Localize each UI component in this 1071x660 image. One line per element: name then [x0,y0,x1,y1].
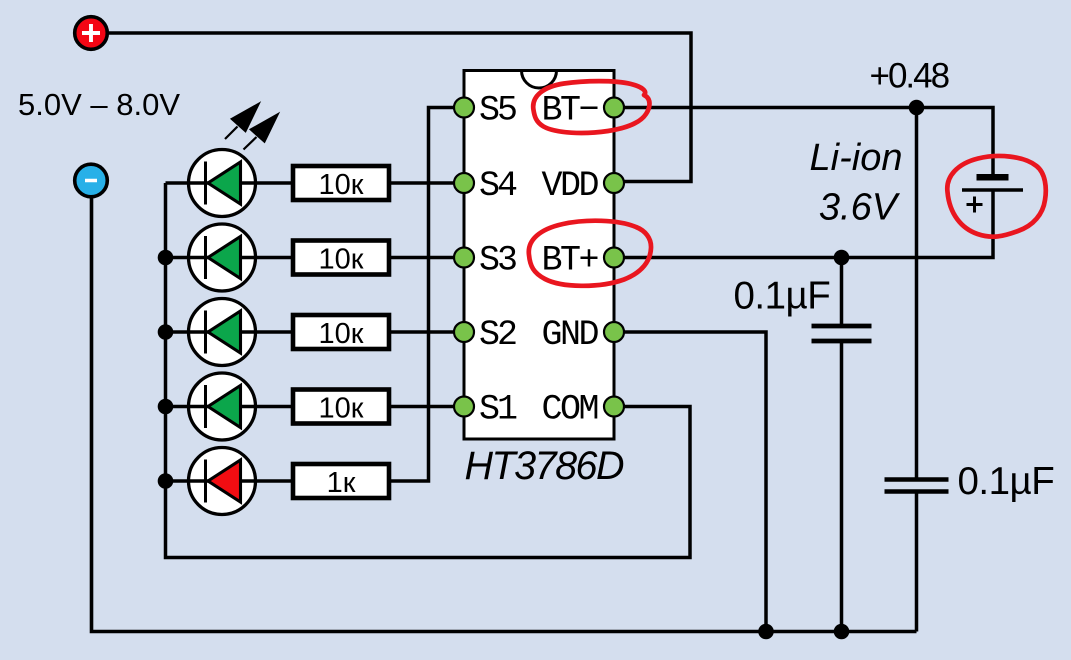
IC U1 HT3786D body [464,71,614,440]
pin S4 [454,173,474,193]
svg-text:10к: 10к [319,393,364,425]
svg-text:0.1µF: 0.1µF [958,460,1055,503]
svg-text:VDD: VDD [542,166,599,206]
pin S5 [454,98,474,118]
pin S3 [454,248,474,268]
resistor R5 1k [293,464,389,499]
resistor R1 10k [293,166,389,201]
pin S1 [454,397,474,417]
pin VDD [604,173,624,193]
wire LED row 4 [166,405,465,409]
pin BT+ [604,248,624,268]
wire LED row 3 [166,330,465,334]
wire minus rail bottom [92,198,917,632]
svg-text:S4: S4 [479,166,517,206]
wire cap C1 branch [840,258,844,632]
wire LED row 5 to S5 [166,108,465,482]
junction node LED rail row 2 [158,250,174,266]
svg-text:1к: 1к [327,467,356,499]
wire from + terminal to VDD [108,33,691,182]
junction node LED rail row 4 [158,399,174,415]
wire BT- to battery top [616,108,993,176]
svg-text:3.6V: 3.6V [819,187,901,229]
junction node LED rail row 3 [158,324,174,340]
LED D1 green [189,150,256,217]
LED D2 green [189,224,256,291]
capacitor C2 [885,480,949,492]
LED D4 green [189,373,256,440]
LED D5 red [189,448,256,515]
svg-text:GND: GND [542,315,599,355]
junction node GND / bottom rail [758,624,774,640]
junction node BT+ / C1 [834,250,850,266]
pin COM [604,397,624,417]
capacitor C1 [812,326,872,341]
terminal - [75,164,108,197]
wire BT+ to battery bottom [616,189,993,258]
wire COM to LED rail [166,183,691,558]
svg-text:S2: S2 [479,315,516,355]
resistor R2 10k [293,241,389,276]
svg-text:+0.48: +0.48 [870,57,949,96]
svg-text:COM: COM [542,390,598,430]
svg-text:S3: S3 [479,241,516,281]
wire BT- net down right side [915,108,919,632]
svg-text:5.0V – 8.0V: 5.0V – 8.0V [18,87,180,122]
pin S2 [454,322,474,342]
svg-text:BT−: BT− [542,91,598,131]
svg-text:HT3786D: HT3786D [465,444,625,488]
junction node C1 / bottom rail [834,624,850,640]
junction node LED rail row 5 [158,473,174,489]
resistor R4 10k [293,390,389,425]
LED D3 green [189,299,256,366]
LED light arrows [225,102,279,149]
red annotation around BT- pin [533,81,649,133]
resistor R3 10k [293,315,389,350]
battery BT1 [962,174,1023,213]
svg-text:S5: S5 [479,91,516,131]
red annotation around BT+ pin [529,221,651,286]
wire GND down [616,332,766,632]
svg-text:10к: 10к [319,244,364,276]
red annotation around battery [947,156,1045,237]
pin GND [604,322,624,342]
wire LED row 2 [166,256,465,260]
svg-text:BT+: BT+ [542,241,598,281]
svg-text:0.1µF: 0.1µF [734,275,831,318]
terminal + [75,17,108,50]
svg-text:Li-ion: Li-ion [810,137,903,179]
svg-text:10к: 10к [319,169,364,201]
wire LED row 1 [166,181,465,185]
svg-text:S1: S1 [479,390,517,430]
pin BT- [604,98,624,118]
junction node +0.48 on BT- net [909,100,925,116]
svg-text:10к: 10к [319,318,364,350]
